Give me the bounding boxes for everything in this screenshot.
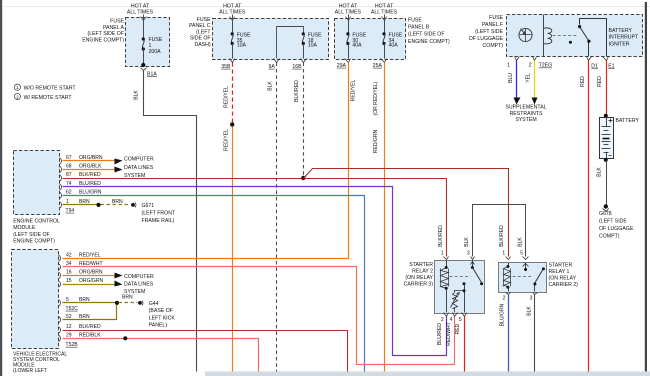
frame top line	[2, 5, 650, 8]
svg-text:FUSE: FUSE	[489, 15, 503, 21]
svg-text:RESTRAINTS: RESTRAINTS	[510, 111, 543, 117]
svg-text:BLU/GRN: BLU/GRN	[500, 303, 506, 326]
wire BLK/RED dashed from 16B	[303, 63, 305, 177]
fuse 1 200A	[142, 37, 145, 40]
svg-text:(BASE OF: (BASE OF	[149, 308, 173, 314]
VESCM pin 42	[59, 255, 61, 261]
svg-text:PANEL F: PANEL F	[482, 22, 503, 28]
VESCM pin 34	[59, 264, 61, 270]
svg-text:RED/YEL: RED/YEL	[223, 86, 229, 108]
svg-text:IGNITER: IGNITER	[609, 41, 630, 47]
svg-text:D1: D1	[591, 63, 598, 69]
svg-text:RED/YEL: RED/YEL	[350, 80, 356, 102]
svg-text:T94: T94	[66, 208, 75, 214]
svg-text:FRAME RAIL): FRAME RAIL)	[142, 218, 175, 224]
svg-text:SIDE OF: SIDE OF	[190, 36, 211, 42]
svg-text:(LEFT SIDE OF: (LEFT SIDE OF	[408, 32, 445, 38]
VESCM pin 12	[59, 327, 61, 333]
svg-text:29A: 29A	[337, 63, 347, 69]
svg-text:BLK/RED: BLK/RED	[438, 225, 444, 247]
ground G671	[131, 203, 135, 207]
svg-text:E1: E1	[608, 63, 614, 69]
wire ORG/BLK pin 68	[63, 169, 115, 171]
svg-text:RED/YEL: RED/YEL	[223, 129, 229, 151]
svg-text:RED/GRN: RED/GRN	[373, 130, 379, 154]
battery interrupt igniter U1	[519, 28, 532, 41]
svg-text:YEL: YEL	[526, 73, 532, 83]
svg-text:COMPT): COMPT)	[483, 43, 504, 49]
wire BLU/RED pin 74 to relay 2 pin 2	[63, 187, 447, 356]
igniter coil	[543, 28, 552, 44]
svg-text:10A: 10A	[237, 43, 247, 49]
svg-text:RED/WHT: RED/WHT	[446, 322, 452, 346]
svg-text:BLK: BLK	[134, 90, 140, 100]
svg-text:BATTERY: BATTERY	[609, 28, 633, 34]
relay 2 pin 5 exit	[462, 313, 467, 317]
svg-text:2: 2	[16, 94, 19, 99]
svg-text:BLK/RED: BLK/RED	[499, 225, 505, 247]
svg-text:STARTER: STARTER	[409, 262, 433, 268]
wire BLU/GRN relay 1 pin 2	[508, 295, 510, 372]
wire RED from E1 to battery	[606, 61, 608, 115]
relay 2 switch	[472, 261, 474, 267]
svg-text:BLU/GRN: BLU/GRN	[79, 190, 102, 196]
wire RED/BLK pin 29	[63, 339, 259, 372]
frame left border	[0, 0, 2, 376]
svg-text:RED/YEL: RED/YEL	[79, 252, 101, 258]
vehicle electrical system control module U3	[12, 250, 59, 349]
svg-text:12: 12	[66, 324, 72, 330]
svg-text:9A: 9A	[268, 64, 275, 70]
svg-text:ORG/BLK: ORG/BLK	[79, 164, 102, 170]
wire ORG/BRN pin 16	[63, 275, 115, 277]
wire feed into panel C	[232, 15, 234, 33]
svg-text:RELAY 1: RELAY 1	[549, 269, 570, 275]
pin 2 (YEL) exit	[533, 57, 537, 61]
svg-text:RED/BLK: RED/BLK	[79, 333, 101, 339]
svg-text:SYSTEM: SYSTEM	[515, 117, 536, 123]
relay 2 coil	[446, 261, 448, 267]
svg-text:W/O REMOTE START: W/O REMOTE START	[24, 86, 77, 92]
svg-text:10A: 10A	[308, 43, 318, 49]
svg-text:29: 29	[66, 333, 72, 339]
relay 1 coil	[508, 263, 510, 267]
wire ORG/GRN pin 15	[63, 284, 115, 286]
wire feed fuse 30	[348, 15, 350, 33]
svg-text:62: 62	[66, 190, 72, 196]
svg-text:FUSE: FUSE	[197, 17, 211, 23]
svg-text:G671: G671	[142, 203, 155, 209]
relay 2 resistor	[453, 291, 465, 313]
svg-text:RELAY 2: RELAY 2	[412, 269, 433, 275]
ground G678	[604, 204, 608, 208]
svg-text:5: 5	[520, 251, 523, 257]
svg-text:OF LUGGAGE: OF LUGGAGE	[599, 226, 634, 232]
pin E1 exit	[603, 57, 609, 61]
wire BLK battery to ground	[606, 161, 608, 205]
fuse panel A box	[126, 18, 170, 67]
relay 1 pin 5 entry	[523, 257, 529, 260]
wire BLK/RED pin 87 to relay 2	[63, 179, 447, 257]
svg-text:BRN: BRN	[122, 294, 133, 300]
wire RED relay 2 pin 5	[464, 317, 466, 372]
wire RED/WHT pin 34 to relay 2 pin 4	[63, 267, 455, 365]
pin D1 exit	[587, 57, 592, 61]
svg-text:CARRIER 2): CARRIER 2)	[549, 282, 579, 288]
svg-text:ORG/BRN: ORG/BRN	[79, 270, 103, 276]
wire BLU to SRS	[516, 61, 518, 99]
wire BRN pin 5 to ground	[63, 302, 116, 304]
relay 2 pin 4 exit	[453, 313, 458, 317]
svg-text:COMPUTER: COMPUTER	[124, 157, 154, 163]
svg-text:ENGINE COMPT): ENGINE COMPT)	[13, 238, 55, 244]
fuse panel C box	[213, 19, 329, 60]
node 25A	[381, 59, 387, 63]
svg-text:STARTER: STARTER	[549, 263, 573, 269]
svg-text:68: 68	[66, 164, 72, 170]
svg-text:(LEFT SIDE: (LEFT SIDE	[475, 29, 503, 35]
node 16B	[301, 59, 307, 63]
svg-text:3: 3	[467, 251, 470, 257]
ECM pin 67	[60, 158, 62, 164]
svg-text:T52B: T52B	[66, 342, 79, 348]
wire YEL to SRS	[534, 61, 536, 99]
battery	[600, 118, 614, 159]
ECM pin 74	[60, 184, 62, 190]
svg-text:(ON RELAY: (ON RELAY	[549, 276, 577, 282]
junction node on BLK/RED	[301, 176, 305, 180]
svg-text:40A: 40A	[389, 43, 399, 49]
wire BLK dashed from 9A	[276, 63, 278, 372]
svg-text:BLK/RED: BLK/RED	[79, 172, 101, 178]
svg-text:(LOWER LEFT: (LOWER LEFT	[13, 368, 47, 374]
svg-text:42: 42	[66, 252, 72, 258]
svg-text:(LEFT FRONT: (LEFT FRONT	[142, 210, 176, 216]
svg-text:SUPPLEMENTAL: SUPPLEMENTAL	[505, 105, 546, 111]
legend note 2	[14, 93, 20, 99]
fuse panel F box	[507, 15, 643, 57]
svg-text:2: 2	[529, 63, 532, 69]
svg-text:(LEFT SIDE OF: (LEFT SIDE OF	[13, 232, 50, 238]
relay 1 switch	[542, 267, 545, 270]
ECM pin 87	[60, 175, 62, 181]
svg-text:BLK: BLK	[597, 167, 603, 177]
svg-text:BLK/RED: BLK/RED	[294, 80, 300, 102]
svg-text:5: 5	[459, 317, 462, 323]
wire BLK/RED pin 12	[63, 331, 348, 372]
fuse 34 40A	[382, 32, 385, 35]
ground G44	[138, 301, 142, 305]
svg-text:BLU: BLU	[508, 73, 514, 83]
VESCM pin 15	[59, 281, 61, 287]
wire BLK relay 1 pin 3	[534, 295, 536, 372]
svg-text:DASH): DASH)	[194, 42, 210, 48]
pin 1 (BLU) exit	[515, 57, 520, 61]
relay 1 pin 3 exit	[533, 293, 538, 295]
svg-text:DATA LINES: DATA LINES	[124, 282, 154, 288]
svg-text:ENGINE CONTROL: ENGINE CONTROL	[13, 218, 60, 224]
node 29A	[345, 59, 351, 63]
node B1A	[141, 63, 145, 67]
actuator dashed link	[553, 35, 577, 37]
bottom scrollbar track	[205, 371, 650, 376]
svg-text:RED: RED	[580, 76, 586, 87]
svg-text:RED: RED	[597, 76, 603, 87]
svg-text:16B: 16B	[292, 64, 302, 70]
VESCM pin 5	[59, 300, 61, 306]
svg-text:25A: 25A	[373, 63, 383, 69]
svg-text:DATA LINES: DATA LINES	[124, 165, 154, 171]
relay 2 actuator dashed	[450, 276, 471, 278]
svg-text:COMPUTER: COMPUTER	[124, 274, 154, 280]
svg-text:BLK: BLK	[517, 237, 523, 247]
VESCM pin 29	[59, 335, 61, 341]
relay 2 pin 5 contact	[463, 282, 466, 285]
wire BLU/GRN pin 62	[63, 196, 365, 372]
svg-text:(OR RED/YEL): (OR RED/YEL)	[373, 81, 379, 115]
svg-text:2: 2	[441, 317, 444, 323]
wire feed into panel A	[143, 15, 145, 39]
wire BRN pin 1 to ground	[63, 204, 97, 206]
relay 1 pin 1 entry	[506, 257, 511, 260]
svg-text:4: 4	[450, 317, 453, 323]
wire RED from D1	[588, 61, 590, 372]
fuse 35 10A	[231, 32, 234, 35]
svg-text:BLU/RED: BLU/RED	[437, 323, 443, 345]
svg-text:INTERRUPT: INTERRUPT	[609, 35, 640, 41]
svg-text:PANEL C: PANEL C	[189, 23, 211, 29]
svg-text:1: 1	[16, 85, 19, 90]
svg-text:3: 3	[530, 295, 533, 301]
wire feed fuse 34	[384, 15, 386, 33]
wire BLK bridge relay2 pin3 to relay1 pin5	[473, 205, 526, 257]
switch from E1 to D1	[580, 19, 607, 57]
svg-text:B1A: B1A	[147, 72, 157, 78]
node 9A	[274, 59, 280, 63]
svg-text:2: 2	[503, 295, 506, 301]
jumper inside panel C	[277, 27, 304, 59]
svg-text:1: 1	[502, 251, 505, 257]
svg-text:BATTERY: BATTERY	[616, 118, 640, 124]
frame right border	[645, 2, 647, 372]
svg-text:(LEFT SIDE OF: (LEFT SIDE OF	[87, 31, 124, 37]
svg-text:(LEFT: (LEFT	[196, 29, 211, 35]
svg-text:87: 87	[66, 172, 72, 178]
svg-text:1: 1	[507, 63, 510, 69]
svg-text:RED: RED	[455, 323, 461, 334]
svg-text:(ON RELAY: (ON RELAY	[405, 275, 433, 281]
wire RED/YEL solid down	[232, 127, 234, 372]
svg-text:PANEL A: PANEL A	[103, 25, 125, 31]
relay 2 pin 3 entry	[471, 257, 475, 260]
svg-text:(LEFT SIDE: (LEFT SIDE	[599, 219, 627, 225]
relay 1 pin 5 contact	[525, 263, 527, 269]
svg-text:ORG/GRN: ORG/GRN	[79, 278, 103, 284]
svg-text:ENGINE COMPT): ENGINE COMPT)	[408, 39, 450, 45]
svg-text:G678: G678	[599, 211, 612, 217]
svg-text:G44: G44	[149, 301, 159, 307]
svg-text:ENGINE COMPT): ENGINE COMPT)	[82, 37, 124, 43]
svg-text:LEFT KICK: LEFT KICK	[149, 315, 176, 321]
VESCM pin 52	[59, 316, 61, 322]
wire RED/YEL from 29A down to VESCM pin 42	[63, 63, 349, 259]
open contact dot	[569, 41, 572, 44]
svg-text:1: 1	[441, 251, 444, 257]
igniter body line	[543, 15, 545, 57]
wire BLK/RED branch to relay 1	[304, 169, 509, 257]
svg-text:200A: 200A	[149, 49, 162, 55]
fuse 18 10A	[302, 32, 305, 35]
svg-text:BLK/RED: BLK/RED	[79, 324, 101, 330]
node 35B	[230, 59, 235, 63]
svg-text:FUSE: FUSE	[408, 18, 422, 24]
ECM pin 62	[60, 192, 62, 198]
splice node on RED/BLK	[123, 336, 127, 340]
VESCM pin 16	[59, 272, 61, 278]
relay 2 pin 2 exit	[444, 313, 449, 317]
svg-text:35B: 35B	[221, 64, 231, 70]
svg-text:BLK: BLK	[268, 81, 274, 91]
svg-text:OF LUGGAGE: OF LUGGAGE	[469, 36, 504, 42]
wire ORG/BRN pin 67	[63, 160, 115, 162]
svg-text:T52C: T52C	[66, 306, 79, 312]
wire BRN pin 52 joins pin 5	[63, 305, 117, 320]
svg-text:16: 16	[66, 270, 72, 276]
relay 2 pin 1 entry	[444, 257, 449, 260]
starter relay 2 K2	[435, 261, 485, 314]
svg-text:BLK: BLK	[464, 237, 470, 247]
svg-text:W/ REMOTE START: W/ REMOTE START	[24, 95, 73, 101]
svg-text:PANEL): PANEL)	[149, 323, 168, 329]
ECM pin 1	[60, 202, 62, 208]
engine control module U2	[14, 151, 60, 215]
svg-text:PANEL B: PANEL B	[408, 25, 430, 31]
svg-text:40A: 40A	[352, 43, 362, 49]
svg-text:FUSE: FUSE	[110, 19, 124, 25]
ECM pin 68	[60, 166, 62, 172]
svg-text:T2EG: T2EG	[539, 63, 553, 69]
svg-text:ALL TIMES: ALL TIMES	[127, 9, 154, 15]
svg-text:15: 15	[66, 278, 72, 284]
fuse panel B box	[335, 19, 406, 60]
starter relay 1 K1	[499, 263, 547, 293]
legend note 1	[14, 84, 20, 90]
svg-text:MODULE: MODULE	[13, 225, 36, 231]
svg-text:COMPT): COMPT)	[599, 233, 620, 239]
relay 1 actuator dashed	[513, 276, 533, 278]
relay 1 pin 2 exit	[506, 293, 511, 295]
svg-text:CARRIER 3): CARRIER 3)	[404, 282, 434, 288]
wire BLK from B1A	[144, 71, 197, 372]
svg-text:BLK: BLK	[527, 306, 533, 316]
wire RED/GRN (OR RED/YEL) from 25A	[384, 63, 386, 372]
fuse 30 40A	[346, 32, 349, 35]
wire RED/YEL dashed from 35B	[232, 63, 234, 123]
splice node	[230, 122, 234, 126]
